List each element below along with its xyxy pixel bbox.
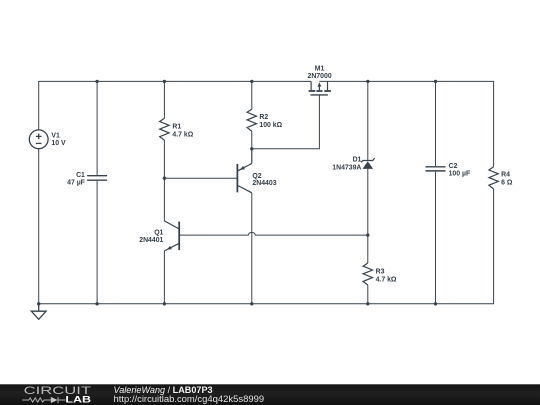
node top rail / R2 junction	[250, 80, 253, 83]
zener diode D1	[361, 158, 374, 162]
svg-text:C2: C2	[449, 163, 458, 170]
node top rail / R1 junction	[163, 80, 166, 83]
voltage source V1	[29, 130, 48, 149]
node bottom rail / ground junction	[37, 302, 40, 305]
wire R1 column	[163, 81, 165, 118]
svg-text:M1: M1	[315, 65, 325, 72]
resistor R3	[363, 263, 372, 285]
wire C2 column	[435, 81, 437, 166]
svg-text:LAB: LAB	[65, 395, 91, 405]
svg-text:R4: R4	[501, 171, 510, 178]
svg-text:100 µF: 100 µF	[449, 170, 471, 177]
svg-text:R3: R3	[376, 269, 385, 276]
svg-text:2N4403: 2N4403	[252, 180, 276, 187]
transistor Q2	[237, 149, 251, 193]
wire D1 column	[367, 81, 369, 160]
wire R3 to bottom rail	[367, 285, 369, 304]
node bottom rail / Q1 emitter junction	[163, 302, 166, 305]
resistor R4	[489, 167, 498, 189]
wire C1 column	[96, 81, 98, 175]
resistor R1	[160, 118, 169, 140]
node D1 / R3 / Q1 base junction	[366, 233, 369, 236]
wire top rail right segment	[319, 81, 493, 166]
resistor R2	[247, 109, 256, 131]
transistor Q1 emitter arrow	[167, 246, 172, 250]
footer bar	[0, 384, 540, 405]
footer logo resistor-diode glyph	[22, 397, 65, 403]
svg-text:10 V: 10 V	[51, 140, 66, 147]
wire Q2 collector to bottom rail	[251, 193, 253, 304]
svg-text:4.7 kΩ: 4.7 kΩ	[172, 132, 193, 139]
wire bottom rail	[39, 189, 494, 304]
node top rail / C2 junction	[434, 80, 437, 83]
node top rail / D1 junction	[366, 80, 369, 83]
svg-text:D1: D1	[353, 157, 362, 164]
wire left rail below V1	[38, 149, 40, 304]
wire top rail left segment	[39, 81, 311, 129]
svg-text:Q2: Q2	[252, 173, 261, 180]
node R2 / M1 gate / Q2 emitter junction	[250, 147, 253, 150]
node bottom rail / Q2 collector junction	[250, 302, 253, 305]
mosfet M1 bulk arrow	[318, 82, 322, 86]
wire R2 column	[251, 81, 253, 109]
node R1 / Q2 base junction	[163, 177, 166, 180]
svg-text:6 Ω: 6 Ω	[501, 179, 513, 186]
wire M1 gate to R2 node	[252, 96, 320, 149]
svg-text:47 µF: 47 µF	[67, 180, 85, 187]
mosfet M1	[309, 81, 331, 95]
transistor Q2 emitter arrow	[240, 166, 245, 170]
wire Q1 emitter to bottom rail	[163, 251, 165, 304]
svg-text:R1: R1	[172, 123, 181, 130]
svg-text:C1: C1	[76, 172, 85, 179]
wire Q2 base to R1 column	[164, 177, 236, 179]
svg-text:R2: R2	[259, 114, 268, 121]
svg-text:100 kΩ: 100 kΩ	[259, 122, 282, 129]
node bottom rail / C1 junction	[95, 302, 98, 305]
ground	[31, 304, 46, 320]
node bottom rail / R3 junction	[366, 302, 369, 305]
svg-text:Q1: Q1	[154, 229, 163, 236]
svg-text:2N4401: 2N4401	[139, 237, 163, 244]
node bottom rail / C2 junction	[434, 302, 437, 305]
node top rail / C1 junction	[95, 80, 98, 83]
capacitor C2	[426, 167, 446, 171]
transistor Q1	[164, 221, 179, 251]
svg-text:http://circuitlab.com/cg4q42k5: http://circuitlab.com/cg4q42k5s8999	[114, 394, 265, 405]
svg-text:2N7000: 2N7000	[308, 73, 332, 80]
wire middle line Q1 base to D1 node with hop over Q2 collector	[179, 232, 368, 235]
capacitor C1	[87, 176, 107, 181]
svg-text:4.7 kΩ: 4.7 kΩ	[376, 276, 397, 283]
svg-text:1N4739A: 1N4739A	[332, 164, 361, 171]
svg-text:V1: V1	[51, 133, 60, 140]
